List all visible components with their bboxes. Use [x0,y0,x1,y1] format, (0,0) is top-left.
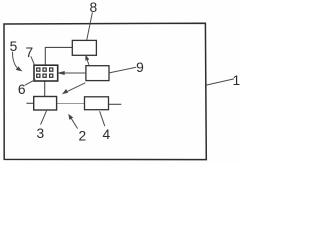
wire stub right of box 4 [109,103,122,105]
leader line label 4 [100,111,105,126]
leader line label 1 [206,79,234,85]
box 8 [72,40,96,55]
arrow box9 to box3 (diagonal) [67,83,86,92]
wire connector bottom to box 3 top [44,81,46,97]
wire stub left of box 3 [26,102,33,104]
box 3 [34,97,57,111]
leader line label 9 [109,67,136,73]
arrow box9 to box8 [87,60,89,65]
arrow box9 to connector [63,72,86,74]
svg-text:9: 9 [136,60,144,75]
box 4 [85,97,109,110]
svg-text:2: 2 [78,128,86,143]
leader line label 8 [87,12,93,40]
svg-text:6: 6 [18,82,26,97]
connector 5 contact squares [37,68,53,77]
wire from box 8 left to connector top [45,47,72,65]
svg-text:1: 1 [233,73,240,88]
box 9 [86,66,109,81]
frame of device 1 [4,23,206,159]
leader line label 7 [31,56,35,66]
svg-text:5: 5 [10,39,18,54]
curved arrow of 5 [12,52,16,68]
svg-text:8: 8 [89,0,97,15]
svg-text:3: 3 [36,126,44,141]
svg-text:7: 7 [26,45,34,60]
wire box 3 to box 4 [57,103,85,105]
svg-text:4: 4 [102,127,110,142]
arrow leader of 2 [71,118,78,128]
leader line label 3 [41,111,47,125]
leader line label 6 [25,80,36,86]
connector 5 outer box [34,65,58,81]
